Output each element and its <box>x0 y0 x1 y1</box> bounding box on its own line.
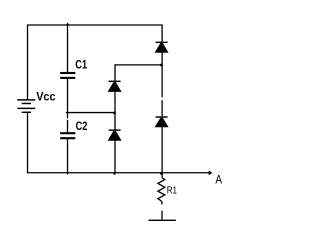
svg-text:A: A <box>215 172 222 186</box>
svg-text:Vcc: Vcc <box>36 89 56 103</box>
svg-text:C1: C1 <box>75 58 87 72</box>
svg-text:C2: C2 <box>76 119 88 133</box>
svg-text:R1: R1 <box>167 184 178 196</box>
